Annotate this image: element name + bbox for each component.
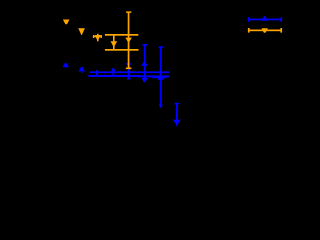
B2 triangle-up marker — [79, 67, 85, 72]
H_a horizontal error line — [90, 71, 169, 73]
H_c short horizontal error line (B7 xerr) — [153, 77, 167, 79]
L2 horizontal error line — [105, 49, 139, 51]
legend blue errorbar sample — [248, 16, 282, 22]
O2 triangle-down marker — [78, 28, 85, 33]
B3 small vertical bar — [96, 70, 98, 75]
B5 vertical bar with top cap — [128, 64, 130, 80]
L1 horizontal error line — [105, 34, 138, 36]
O1 triangle-down marker — [63, 20, 70, 25]
O4 vertical bar with caret-down — [113, 35, 115, 50]
B8 errorbar with cap and caret-down — [176, 103, 178, 121]
O3 point: marker + small cross errorbar — [97, 34, 99, 42]
legend orange errorbar sample — [248, 28, 282, 33]
B1 triangle-up marker — [63, 63, 69, 67]
LEGEND — [248, 16, 282, 32]
H_b horizontal error line — [88, 75, 140, 77]
O5 big vertical errorbar with caps and caret-down — [128, 12, 130, 69]
BLUE SERIES — [63, 44, 181, 126]
B4 vertical bar with caret-up — [113, 69, 115, 78]
B6 point: triangle-up marker, capped bar, caret-down at bottom — [144, 44, 146, 79]
ORANGE SERIES — [63, 11, 139, 69]
B7 point: long vertical bar with cap and triangle-up — [160, 46, 162, 107]
